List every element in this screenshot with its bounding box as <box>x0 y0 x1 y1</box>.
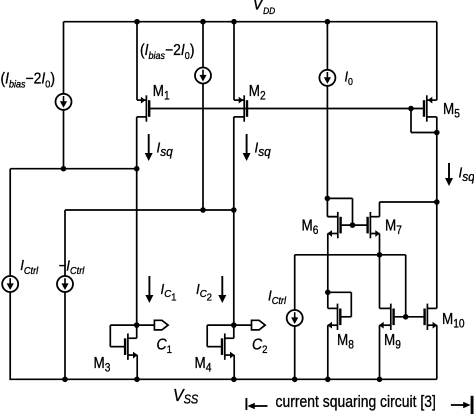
svg-text:current squaring circuit [3]: current squaring circuit [3] <box>276 393 436 411</box>
